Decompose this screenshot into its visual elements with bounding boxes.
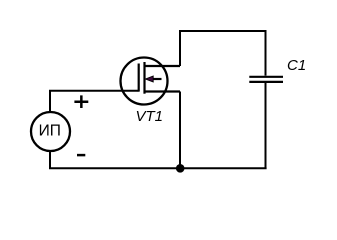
junction dot (176, 164, 185, 173)
wire: capacitor bottom down to bottom rail (265, 83, 267, 168)
wire: source down to bottom rail (179, 92, 181, 169)
capacitor C1 (249, 77, 283, 82)
label C1 (287, 57, 306, 74)
bottom rail wire (49, 167, 267, 169)
svg-text:ИП: ИП (39, 123, 61, 140)
channel line (143, 62, 145, 94)
svg-text:C1: C1 (287, 57, 306, 74)
minus polarity label (77, 154, 85, 157)
substrate lead (152, 78, 162, 80)
wire: top rail down to capacitor (265, 30, 267, 76)
power source ИП (31, 112, 70, 151)
wire: drain up to top rail (179, 31, 181, 66)
envelope circle (121, 58, 168, 105)
transistor VT1 (121, 58, 181, 105)
plus polarity label (74, 95, 88, 108)
top rail wire (179, 30, 266, 32)
wire: ИП plus terminal up and right to gate (50, 91, 139, 112)
source lead (145, 90, 181, 92)
drain lead (145, 65, 181, 67)
substrate arrow (145, 76, 153, 82)
wire: ИП minus terminal down to bottom rail (49, 151, 51, 168)
gate electrode (138, 64, 140, 92)
power source label ИП (39, 123, 61, 140)
label VT1 (136, 108, 164, 125)
svg-text:VT1: VT1 (136, 108, 164, 125)
